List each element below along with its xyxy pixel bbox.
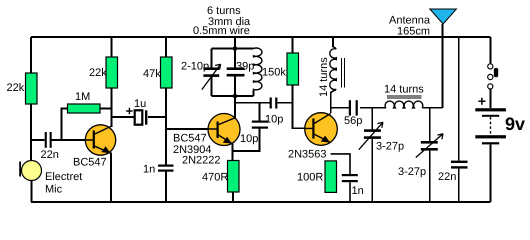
- svg-text:1M: 1M: [75, 91, 90, 103]
- wire 56p to pi-network junction: [360, 107, 386, 109]
- wire rail corner to switch: [490, 37, 492, 64]
- svg-text:2N3563: 2N3563: [288, 149, 327, 161]
- electret microphone MIC1: [19, 161, 41, 181]
- wire L2 right to antenna line: [422, 107, 442, 109]
- wire 1u cap to 47k node: [148, 116, 166, 118]
- svg-text:1n: 1n: [352, 185, 364, 197]
- junction dot tank top: [233, 46, 238, 51]
- wire trimmer C9 vertical to ground: [371, 108, 373, 202]
- trimmer capacitor 2-10p C3: [202, 64, 221, 89]
- wire battery negative to ground: [490, 145, 492, 202]
- wire coil L1 bottom: [253, 91, 255, 97]
- wire collector node to 1u cap: [112, 116, 135, 118]
- wire trimmer C3 bottom lead: [211, 77, 213, 96]
- wire 470R to ground: [232, 192, 234, 202]
- wire tank bottom: [212, 95, 254, 97]
- wire 47k top lead: [165, 37, 167, 57]
- capacitor 39p C4: [227, 67, 245, 76]
- svg-text:2N2222: 2N2222: [182, 155, 221, 167]
- resistor 22k R2: [106, 57, 118, 88]
- wire 22n decoupling to ground: [458, 168, 460, 202]
- wire node A to 22n cap: [31, 139, 45, 141]
- wire L1b feed from rail: [333, 37, 336, 49]
- resistor 22k R1: [26, 73, 38, 104]
- trimmer capacitor 3-27p C9: [359, 122, 383, 149]
- wire 39p top lead: [234, 49, 236, 68]
- inductor L1b 14 turns with core: [330, 49, 345, 90]
- wire Q2 emitter to 470R: [232, 144, 234, 161]
- svg-text:22n: 22n: [41, 149, 59, 161]
- wire trimmer C3 top lead: [211, 49, 213, 68]
- wire Q1 emitter to ground: [110, 153, 112, 203]
- transistor Q1 BC547: [85, 125, 115, 155]
- wire 22k R1 top lead: [30, 37, 32, 73]
- svg-text:1u: 1u: [134, 98, 146, 110]
- svg-text:22k: 22k: [7, 82, 25, 94]
- wire mic bottom to ground: [31, 181, 33, 203]
- svg-text:0.5mm wire: 0.5mm wire: [193, 25, 250, 37]
- capacitor 22n C12 decoupling: [451, 161, 468, 169]
- wire 1M left lead: [62, 109, 68, 141]
- svg-text:10p: 10p: [240, 133, 258, 145]
- inductor L2 14 turns with core: [385, 96, 423, 108]
- wire 22k R2 top lead: [111, 37, 113, 57]
- svg-text:BC547: BC547: [73, 157, 107, 169]
- inductor L1 6 turns: [254, 48, 262, 91]
- transistor Q2 BC547/2N3904/2N2222: [208, 114, 240, 146]
- antenna: [430, 9, 457, 24]
- svg-text:BC547: BC547: [173, 133, 207, 145]
- svg-text:100R: 100R: [297, 172, 323, 184]
- junction dot tank bottom: [233, 94, 238, 99]
- svg-text:3-27p: 3-27p: [376, 141, 404, 153]
- wire 1n cap to ground: [165, 172, 167, 203]
- wire R1 bottom to mic: [30, 104, 32, 160]
- polarity plus battery: [478, 98, 485, 105]
- svg-text:56p: 56p: [344, 115, 362, 127]
- svg-text:Electret: Electret: [45, 171, 82, 183]
- capacitor 1u C2 electrolytic: [126, 108, 147, 125]
- svg-text:39p: 39p: [236, 61, 254, 73]
- svg-text:165cm: 165cm: [397, 26, 430, 38]
- wire 22n decoupling top lead: [458, 37, 460, 161]
- wire Q1 collector node: [111, 88, 113, 127]
- switch S1: [488, 64, 499, 89]
- wire 22n cap to Q1 base: [52, 139, 87, 141]
- capacitor 10p C5 series coupling: [270, 98, 278, 109]
- transistor Q3 2N3563: [305, 113, 338, 146]
- svg-text:47k: 47k: [143, 68, 161, 80]
- wire feedback 10p top lead: [259, 103, 261, 121]
- wire 150k top lead: [292, 37, 294, 53]
- wire 47k node vertical: [165, 88, 167, 165]
- capacitor 22n C1: [45, 132, 52, 148]
- svg-text:1n: 1n: [143, 164, 155, 176]
- resistor 47k R4: [161, 57, 173, 88]
- svg-text:470R: 470R: [202, 172, 228, 184]
- svg-text:2-10p: 2-10p: [181, 60, 209, 72]
- wire Q3 collector tap to 56p: [331, 107, 349, 109]
- capacitor 1n C7: [158, 165, 174, 172]
- wire feedback 10p bottom lead: [233, 129, 260, 151]
- capacitor 1n C11: [331, 154, 358, 202]
- resistor 100R R7: [325, 161, 337, 193]
- wire 150k to Q3 base: [293, 85, 305, 128]
- wire collector tap to 10p cap: [235, 102, 270, 104]
- wire 1M right lead: [100, 108, 112, 110]
- battery B1 9v: [475, 98, 506, 145]
- wire switch to battery: [490, 89, 492, 108]
- resistor 470R R6: [228, 161, 240, 193]
- wire antenna lead: [442, 24, 444, 108]
- svg-text:150k: 150k: [262, 67, 286, 79]
- resistor 150k R5: [287, 53, 299, 85]
- capacitor 10p C6 feedback: [252, 121, 268, 129]
- svg-text:9v: 9v: [505, 114, 525, 134]
- wire trimmer C10 vertical to ground: [429, 108, 431, 202]
- wire VCC top rail: [31, 36, 491, 38]
- wire tank feed from rail: [234, 37, 236, 49]
- wire GND bottom rail: [31, 201, 491, 203]
- wire Q2 base: [166, 128, 208, 130]
- trimmer capacitor 3-27p C10: [416, 134, 443, 158]
- svg-text:14 turns: 14 turns: [318, 57, 330, 97]
- svg-text:10p: 10p: [265, 114, 283, 126]
- svg-text:22k: 22k: [89, 67, 107, 79]
- wire tank top: [212, 48, 254, 50]
- capacitor 56p C8: [349, 100, 358, 115]
- svg-text:Mic: Mic: [45, 184, 63, 196]
- resistor 1M R3: [68, 104, 101, 113]
- svg-text:3-27p: 3-27p: [398, 166, 426, 178]
- polarity plus 1u: [126, 108, 132, 114]
- wire 39p bottom lead: [234, 77, 236, 97]
- wire L1b bottom to Q3 collector: [331, 89, 337, 113]
- svg-text:14 turns: 14 turns: [384, 84, 424, 96]
- wire 10p cap to 150k node: [278, 102, 293, 104]
- svg-text:22n: 22n: [438, 171, 456, 183]
- wire Q2 collector: [234, 96, 236, 118]
